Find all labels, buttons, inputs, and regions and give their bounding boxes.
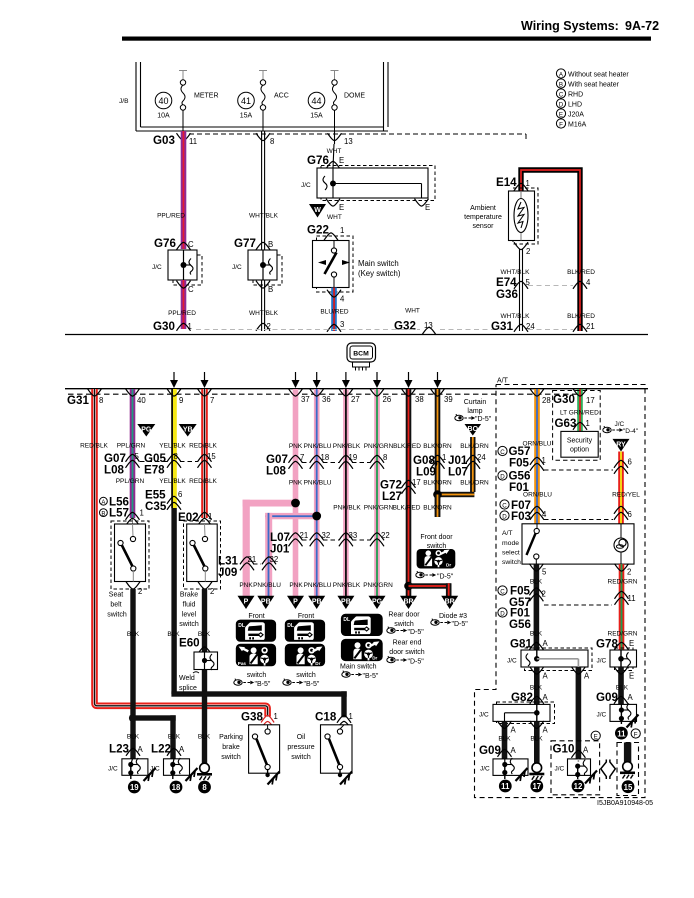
svg-text:BLK/ORN: BLK/ORN	[423, 443, 452, 450]
svg-text:BCM: BCM	[353, 351, 369, 358]
svg-text:door switch: door switch	[389, 649, 425, 656]
svg-text:PNK/BLU: PNK/BLU	[304, 582, 332, 589]
svg-text:switch: switch	[296, 672, 316, 679]
labels row 586	[239, 582, 393, 589]
svg-text:"B-5": "B-5"	[304, 681, 320, 688]
svg-text:BR: BR	[445, 599, 455, 606]
svg-text:G36: G36	[496, 288, 518, 301]
svg-text:WHT/BLK: WHT/BLK	[249, 213, 279, 220]
svg-text:7: 7	[300, 453, 304, 462]
svg-text:sensor: sensor	[472, 223, 494, 230]
svg-text:5: 5	[135, 452, 140, 461]
svg-text:12: 12	[574, 782, 583, 791]
svg-text:1: 1	[208, 512, 212, 521]
svg-text:A: A	[628, 693, 634, 702]
svg-text:G76: G76	[154, 237, 176, 250]
wire 8 RED/BLK	[80, 389, 268, 717]
svg-text:13: 13	[344, 137, 353, 146]
svg-text:BLK/ORN: BLK/ORN	[423, 505, 452, 512]
svg-text:belt: belt	[110, 602, 121, 609]
svg-text:G30: G30	[553, 393, 575, 406]
E14 ambient temperature sensor	[464, 170, 595, 333]
svg-text:Oil: Oil	[297, 734, 306, 741]
svg-text:F: F	[559, 121, 563, 128]
svg-text:PG: PG	[372, 599, 383, 606]
svg-text:switch: switch	[394, 621, 414, 628]
svg-text:BLK: BLK	[498, 736, 511, 743]
svg-text:PNK: PNK	[289, 582, 303, 589]
svg-text:pressure: pressure	[287, 744, 314, 751]
svg-text:"D-5": "D-5"	[437, 574, 454, 581]
svg-text:PNK/GRN: PNK/GRN	[364, 443, 394, 450]
svg-text:26: 26	[383, 395, 392, 404]
svg-text:B: B	[101, 511, 105, 517]
svg-text:DL: DL	[238, 623, 245, 629]
svg-text:6: 6	[628, 458, 632, 467]
svg-text:G32: G32	[394, 320, 416, 333]
svg-text:select: select	[502, 550, 520, 557]
svg-text:Dr: Dr	[446, 563, 451, 568]
svg-text:PPL/RED: PPL/RED	[157, 213, 185, 220]
svg-text:8: 8	[383, 453, 387, 462]
svg-text:19: 19	[130, 783, 139, 792]
svg-text:P: P	[244, 599, 249, 606]
svg-text:21: 21	[586, 322, 595, 331]
svg-text:Pas: Pas	[238, 661, 247, 666]
svg-text:8: 8	[99, 396, 103, 405]
svg-text:E02: E02	[178, 511, 199, 524]
svg-text:YEL/BLK: YEL/BLK	[159, 478, 186, 485]
wire WHT (DOME)	[334, 131, 336, 144]
svg-text:PB: PB	[261, 599, 271, 606]
svg-text:E: E	[594, 734, 598, 741]
svg-text:DL: DL	[343, 617, 350, 623]
wire 39 BLK/ORN	[435, 389, 441, 517]
wire 28 ORN/BLU	[534, 389, 540, 524]
svg-text:"B-5": "B-5"	[363, 673, 379, 680]
svg-text:BLK: BLK	[198, 631, 211, 638]
svg-text:PNK/BLK: PNK/BLK	[333, 582, 361, 589]
svg-text:24: 24	[477, 453, 486, 462]
long black horizontal to C18	[171, 691, 346, 696]
svg-text:18: 18	[321, 453, 330, 462]
G10 dashed box	[551, 741, 600, 795]
wire PPL/RED from fuse 40	[181, 131, 187, 249]
svg-text:BLK: BLK	[530, 579, 543, 586]
svg-text:fluid: fluid	[183, 602, 196, 609]
main switch group	[341, 614, 383, 636]
svg-text:RED/BLK: RED/BLK	[80, 443, 108, 450]
svg-text:Seat: Seat	[109, 592, 123, 599]
svg-text:RED/YEL: RED/YEL	[612, 492, 640, 499]
15 column	[617, 743, 639, 796]
svg-text:BLK: BLK	[198, 734, 211, 741]
J/B junction box	[136, 62, 388, 131]
svg-text:G03: G03	[153, 134, 175, 147]
svg-text:J/C: J/C	[615, 421, 625, 428]
svg-text:L09: L09	[416, 466, 437, 479]
svg-text:D: D	[502, 513, 507, 520]
svg-text:L27: L27	[382, 490, 402, 503]
svg-text:temperature: temperature	[464, 214, 502, 221]
BLK/RED wire up-right-down	[521, 170, 580, 331]
svg-text:YB: YB	[183, 427, 193, 434]
svg-text:2: 2	[138, 587, 142, 596]
svg-text:11: 11	[617, 729, 626, 738]
svg-text:brake: brake	[222, 744, 240, 751]
svg-text:BLK: BLK	[168, 734, 181, 741]
svg-text:"D-5": "D-5"	[475, 416, 492, 423]
svg-text:44: 44	[311, 96, 321, 106]
bridge at y718 and L22 drop	[130, 715, 176, 720]
svg-text:E14: E14	[496, 176, 517, 189]
svg-text:BLK/RED: BLK/RED	[567, 313, 595, 320]
bus lines	[65, 388, 648, 390]
svg-text:BLK/ORN: BLK/ORN	[460, 443, 489, 450]
svg-text:6: 6	[178, 490, 182, 499]
svg-text:"D-5": "D-5"	[452, 621, 469, 628]
svg-text:G31: G31	[67, 394, 89, 407]
svg-text:G81: G81	[510, 638, 532, 651]
svg-text:PG: PG	[141, 427, 152, 434]
svg-text:C18: C18	[315, 711, 337, 724]
svg-text:PNK/BLU: PNK/BLU	[253, 582, 281, 589]
svg-text:2: 2	[210, 587, 214, 596]
svg-text:RED/BLK: RED/BLK	[189, 478, 217, 485]
fuse 41 ACC	[238, 70, 289, 131]
svg-text:M16A: M16A	[568, 121, 587, 128]
svg-text:E: E	[629, 672, 634, 681]
svg-text:J/C: J/C	[479, 712, 489, 719]
svg-text:WHT: WHT	[405, 308, 420, 315]
BCM	[347, 343, 376, 371]
svg-text:8: 8	[270, 137, 274, 146]
svg-text:1: 1	[586, 419, 590, 428]
svg-text:PNK/BLK: PNK/BLK	[333, 443, 361, 450]
svg-text:C: C	[502, 502, 507, 509]
svg-text:A: A	[543, 726, 549, 735]
svg-text:A: A	[101, 500, 105, 506]
svg-text:A: A	[543, 639, 549, 648]
svg-text:22: 22	[381, 531, 390, 540]
svg-text:BLK/ORN: BLK/ORN	[460, 480, 489, 487]
svg-text:switch: switch	[427, 543, 447, 550]
svg-text:splice: splice	[179, 685, 197, 692]
svg-text:A: A	[543, 693, 549, 702]
svg-text:A: A	[138, 745, 144, 754]
svg-text:8: 8	[174, 452, 178, 461]
svg-text:G38: G38	[241, 711, 263, 724]
svg-text:15A: 15A	[310, 113, 323, 120]
svg-text:A: A	[584, 672, 590, 681]
svg-text:32: 32	[322, 531, 331, 540]
svg-text:RED/GRN: RED/GRN	[608, 579, 638, 586]
L56/L57	[100, 495, 130, 519]
svg-text:10A: 10A	[157, 113, 170, 120]
svg-text:13: 13	[424, 321, 433, 330]
svg-text:YEL/BLK: YEL/BLK	[159, 443, 186, 450]
svg-text:BLK/RED: BLK/RED	[393, 443, 421, 450]
svg-text:B: B	[559, 81, 563, 88]
svg-text:E: E	[559, 111, 563, 118]
svg-text:19: 19	[349, 453, 358, 462]
security dashed box	[553, 391, 601, 461]
svg-text:BLK: BLK	[127, 734, 140, 741]
svg-text:F: F	[634, 731, 638, 738]
svg-text:1: 1	[442, 453, 446, 462]
wire 36 PNK/BLU	[314, 389, 320, 596]
svg-text:BLU/RED: BLU/RED	[320, 309, 348, 316]
svg-text:PNK/BLU: PNK/BLU	[304, 443, 332, 450]
destination triangles row	[238, 596, 459, 609]
svg-text:6: 6	[628, 510, 632, 519]
svg-text:A: A	[583, 746, 589, 755]
svg-text:G76: G76	[307, 154, 329, 167]
wire 27 PNK/BLK	[343, 389, 349, 596]
svg-text:17: 17	[532, 782, 541, 791]
svg-text:PNK/GRN: PNK/GRN	[363, 582, 393, 589]
wire color labels row 443	[289, 443, 489, 450]
svg-text:D: D	[500, 610, 505, 617]
svg-text:(Key switch): (Key switch)	[358, 269, 401, 278]
svg-text:C: C	[500, 588, 505, 595]
svg-text:1: 1	[140, 509, 144, 518]
svg-text:F03: F03	[511, 510, 532, 523]
svg-text:E: E	[629, 639, 634, 648]
svg-text:E: E	[339, 156, 344, 165]
header	[122, 19, 659, 41]
svg-text:RY: RY	[616, 442, 626, 449]
svg-text:1: 1	[188, 322, 192, 331]
svg-text:21: 21	[248, 555, 257, 564]
section divider	[65, 334, 648, 336]
svg-text:A: A	[543, 672, 549, 681]
svg-text:L07: L07	[448, 466, 468, 479]
svg-text:J/C: J/C	[507, 658, 517, 665]
svg-text:33: 33	[349, 531, 358, 540]
svg-text:11: 11	[501, 782, 510, 791]
svg-text:switch: switch	[502, 559, 521, 566]
svg-text:2: 2	[627, 568, 631, 577]
svg-text:"D-5": "D-5"	[408, 629, 425, 636]
svg-text:J/C: J/C	[555, 766, 565, 773]
svg-text:A: A	[511, 726, 517, 735]
gray dashed G30 line	[196, 329, 516, 331]
svg-text:L57: L57	[109, 507, 129, 520]
svg-text:E: E	[425, 203, 430, 212]
svg-text:Curtain: Curtain	[464, 399, 487, 406]
svg-text:32: 32	[270, 555, 279, 564]
svg-text:C: C	[559, 91, 564, 98]
svg-text:PB: PB	[312, 599, 322, 606]
svg-text:switch: switch	[291, 754, 311, 761]
svg-text:I5JB0A910948-05: I5JB0A910948-05	[597, 800, 653, 807]
svg-text:J/C: J/C	[597, 658, 607, 665]
svg-text:BLK: BLK	[530, 736, 543, 743]
svg-text:Brake: Brake	[180, 592, 198, 599]
svg-text:PB: PB	[341, 599, 351, 606]
svg-text:WHT/BLK: WHT/BLK	[501, 269, 531, 276]
svg-text:METER: METER	[194, 93, 219, 100]
svg-text:11: 11	[189, 137, 197, 146]
svg-text:G22: G22	[307, 224, 329, 237]
svg-text:4: 4	[340, 295, 345, 304]
svg-text:4: 4	[586, 278, 591, 287]
svg-text:C: C	[188, 285, 194, 294]
BCM stub wires with arrows	[170, 372, 442, 388]
svg-text:With seat heater: With seat heater	[568, 81, 620, 88]
below box: RED/GRN to G78	[619, 564, 625, 650]
svg-text:Rear door: Rear door	[388, 612, 420, 619]
wire38 branch to diode	[404, 582, 413, 591]
svg-text:G30: G30	[153, 320, 175, 333]
svg-text:BLK: BLK	[530, 631, 543, 638]
svg-text:Front door: Front door	[420, 534, 453, 541]
svg-text:15: 15	[624, 783, 633, 792]
svg-text:17: 17	[586, 396, 595, 405]
svg-text:G77: G77	[234, 237, 256, 250]
svg-text:15A: 15A	[240, 113, 253, 120]
svg-text:B: B	[268, 285, 273, 294]
svg-text:PNK: PNK	[239, 582, 253, 589]
svg-text:DL: DL	[287, 623, 294, 629]
svg-text:8: 8	[202, 783, 207, 792]
svg-text:BLK/ORN: BLK/ORN	[423, 480, 452, 487]
ground 17	[529, 763, 544, 780]
svg-text:C35: C35	[145, 500, 167, 513]
svg-text:L08: L08	[266, 465, 287, 478]
G30 17 green	[577, 389, 583, 431]
fuse 44 DOME	[308, 70, 365, 131]
wire WHT/BLK (ACC)	[262, 131, 265, 331]
svg-text:L23: L23	[109, 743, 130, 756]
svg-text:Ambient: Ambient	[470, 205, 496, 212]
svg-text:WHT/BLK: WHT/BLK	[249, 310, 279, 317]
svg-text:A/T: A/T	[502, 530, 513, 537]
svg-text:21: 21	[300, 531, 309, 540]
svg-text:A: A	[179, 745, 185, 754]
svg-text:PPL/RED: PPL/RED	[168, 310, 196, 317]
svg-text:38: 38	[415, 395, 424, 404]
svg-text:Front: Front	[248, 613, 264, 620]
svg-text:W: W	[314, 207, 321, 214]
svg-text:J/C: J/C	[597, 712, 607, 719]
legend	[556, 69, 629, 128]
svg-text:Main switch: Main switch	[340, 664, 377, 671]
svg-text:7: 7	[210, 396, 214, 405]
C F07 / D F03	[500, 500, 509, 509]
svg-text:E: E	[339, 203, 344, 212]
svg-text:LHD: LHD	[568, 101, 582, 108]
svg-text:"D-4": "D-4"	[623, 428, 639, 435]
svg-text:J/C: J/C	[232, 264, 242, 271]
svg-text:3: 3	[340, 320, 344, 329]
svg-text:17: 17	[412, 478, 421, 487]
svg-text:WHT/BLK: WHT/BLK	[501, 313, 531, 320]
svg-text:28: 28	[542, 396, 551, 405]
svg-text:41: 41	[241, 96, 251, 106]
svg-text:J01: J01	[270, 543, 290, 556]
svg-text:5: 5	[542, 568, 547, 577]
svg-text:J/C: J/C	[301, 182, 311, 189]
svg-text:BLK/RED: BLK/RED	[393, 505, 421, 512]
wire 26 PNK/GRN	[374, 389, 380, 596]
svg-text:RED/GRN: RED/GRN	[608, 631, 638, 638]
svg-text:27: 27	[351, 395, 360, 404]
svg-text:L08: L08	[104, 464, 125, 477]
svg-text:DOME: DOME	[344, 93, 365, 100]
svg-text:9: 9	[179, 396, 183, 405]
ground 8	[197, 763, 212, 780]
svg-text:A: A	[511, 746, 517, 755]
svg-text:Weld: Weld	[179, 675, 195, 682]
svg-text:Diode #3: Diode #3	[439, 613, 467, 620]
svg-text:LT GRN/RED: LT GRN/RED	[560, 410, 599, 417]
svg-text:Front: Front	[298, 613, 314, 620]
svg-text:PNK/GRN: PNK/GRN	[364, 505, 394, 512]
svg-text:J/C: J/C	[152, 264, 162, 271]
below box: BLK to G81	[534, 564, 540, 650]
svg-text:G56: G56	[509, 618, 531, 631]
svg-text:switch: switch	[179, 621, 199, 628]
svg-text:37: 37	[301, 395, 310, 404]
svg-text:option: option	[570, 447, 589, 454]
svg-text:RED/BLK: RED/BLK	[189, 443, 217, 450]
svg-text:PNK: PNK	[289, 480, 303, 487]
svg-text:39: 39	[444, 395, 453, 404]
svg-text:switch: switch	[221, 754, 241, 761]
svg-text:lamp: lamp	[467, 408, 482, 415]
svg-text:PNK/BLU: PNK/BLU	[304, 480, 332, 487]
svg-text:BLK/RED: BLK/RED	[567, 269, 595, 276]
svg-text:BLK: BLK	[127, 631, 140, 638]
svg-text:PPL/GRN: PPL/GRN	[116, 478, 145, 485]
svg-text:C: C	[500, 449, 505, 456]
svg-text:ACC: ACC	[274, 93, 289, 100]
svg-text:9A-72: 9A-72	[625, 19, 659, 33]
svg-text:Dr: Dr	[315, 661, 320, 666]
svg-text:ORN/BLU: ORN/BLU	[523, 492, 552, 499]
svg-text:D: D	[500, 473, 505, 480]
svg-text:Rear end: Rear end	[393, 640, 422, 647]
svg-text:1: 1	[340, 226, 344, 235]
svg-text:J09: J09	[218, 566, 238, 579]
svg-text:1: 1	[349, 712, 353, 721]
svg-text:36: 36	[322, 395, 331, 404]
svg-text:2: 2	[542, 590, 546, 599]
pink branch junctions	[243, 500, 296, 507]
wire 38 BLK/RED	[406, 389, 412, 596]
svg-text:40: 40	[137, 396, 146, 405]
svg-text:PPL/GRN: PPL/GRN	[117, 443, 146, 450]
svg-text:2: 2	[526, 247, 530, 256]
svg-text:RHD: RHD	[568, 91, 583, 98]
svg-text:Security: Security	[567, 438, 593, 445]
svg-text:Without seat heater: Without seat heater	[568, 71, 629, 78]
A/T mode select switch box	[544, 519, 613, 521]
wire 37 PNK	[293, 389, 299, 596]
svg-text:E78: E78	[144, 464, 165, 477]
wire 9 YEL/BLK	[159, 389, 196, 508]
svg-text:PNK: PNK	[289, 443, 303, 450]
svg-text:P: P	[293, 599, 298, 606]
svg-text:J/C: J/C	[108, 766, 118, 773]
svg-text:Main switch: Main switch	[358, 259, 399, 268]
svg-text:WHT: WHT	[327, 214, 342, 221]
svg-text:"D-5": "D-5"	[408, 659, 425, 666]
wire 40 PPL/GRN	[116, 389, 156, 540]
svg-text:4: 4	[542, 510, 547, 519]
